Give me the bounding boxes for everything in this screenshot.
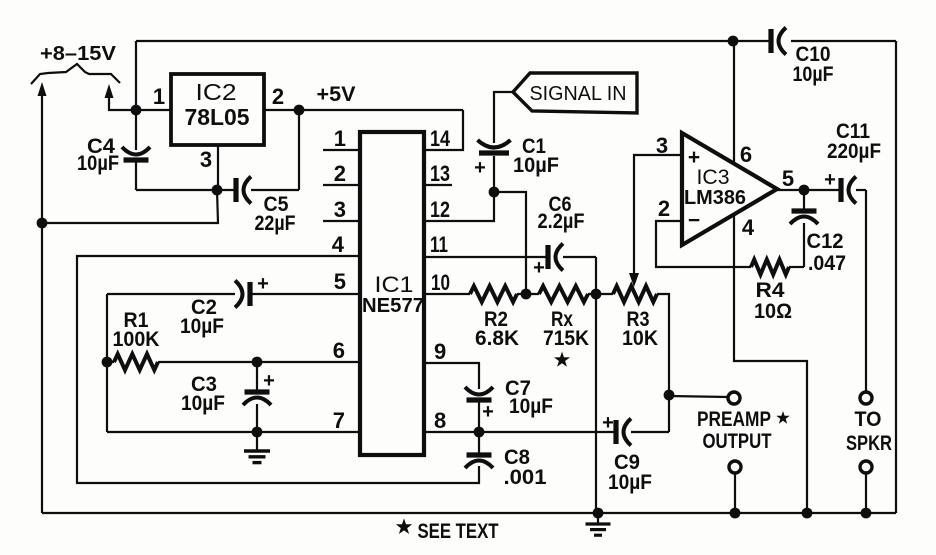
- svg-text:SIGNAL IN: SIGNAL IN: [530, 82, 627, 105]
- wire preamp tap: [669, 396, 728, 397]
- node bus ground junction: [593, 508, 604, 519]
- svg-text:TO: TO: [855, 408, 882, 431]
- label R4 value: [754, 300, 792, 323]
- svg-text:6: 6: [333, 338, 345, 363]
- svg-text:78L05: 78L05: [185, 104, 250, 130]
- label OUTPUT: [703, 430, 772, 453]
- node top rail junction: [728, 36, 739, 47]
- node output junction: [799, 185, 810, 196]
- pin 11 label IC1: [430, 232, 448, 257]
- wire IC1 pin8: [424, 431, 616, 433]
- node R2-Rx junction: [517, 289, 539, 300]
- plus sign C11: [824, 169, 836, 191]
- pin 6 label IC1: [333, 338, 345, 363]
- label C11 value: [827, 140, 881, 163]
- svg-text:SPKR: SPKR: [846, 432, 892, 455]
- wire IC2 pin1: [136, 109, 171, 111]
- capacitor C5: [217, 177, 299, 204]
- pin 8 label IC1: [434, 408, 446, 433]
- svg-text:13: 13: [430, 161, 450, 186]
- label IC1: [375, 272, 414, 297]
- svg-text:10µF: 10µF: [509, 395, 553, 418]
- svg-text:+: +: [482, 401, 494, 423]
- pin 10 label IC1: [431, 270, 450, 295]
- plus sign C2: [257, 273, 269, 295]
- pin 12 label IC1: [430, 197, 450, 222]
- label C4 value: [77, 152, 119, 175]
- svg-text:10K: 10K: [622, 327, 658, 350]
- wire IC1 pin13 stub: [424, 184, 452, 186]
- wire R3 right drop: [657, 294, 669, 432]
- node bus pin4 junction: [802, 508, 813, 519]
- wire left edge with up arrow: [38, 82, 47, 513]
- svg-text:+: +: [533, 257, 545, 279]
- wire IC2 pin3 down: [217, 145, 219, 190]
- svg-text:+: +: [688, 146, 700, 169]
- label C12 value: [808, 252, 846, 275]
- svg-text:OUTPUT: OUTPUT: [703, 430, 772, 453]
- capacitor C1: [478, 140, 511, 192]
- svg-text:NE577: NE577: [362, 295, 424, 317]
- ground below C3: [244, 432, 270, 463]
- pin 3 label IC3: [656, 133, 668, 158]
- capacitor C9: [616, 419, 669, 446]
- terminal preamp output bottom: [729, 461, 741, 473]
- svg-text:3: 3: [200, 147, 212, 172]
- svg-text:100K: 100K: [113, 328, 160, 351]
- plus sign C7: [482, 401, 494, 423]
- wire IC1 pin2 stub: [323, 184, 360, 186]
- wire IC1 pin14 to +5V: [424, 110, 463, 150]
- terminal to-spkr top: [860, 392, 872, 404]
- label C6 value: [538, 210, 585, 233]
- label PREAMP: [697, 408, 790, 431]
- svg-text:5: 5: [334, 269, 346, 294]
- capacitor C4: [122, 110, 150, 190]
- label Rx value: [543, 327, 589, 350]
- label C12: [807, 230, 844, 253]
- label C3 value: [181, 392, 225, 415]
- pin 2 label IC3: [658, 196, 670, 221]
- svg-text:9: 9: [434, 339, 446, 364]
- capacitor C12: [790, 190, 818, 267]
- pin 1 label IC1: [334, 126, 346, 151]
- label C4: [87, 135, 115, 158]
- ground below bus: [586, 513, 611, 535]
- label C7: [505, 377, 531, 400]
- capacitor C3: [243, 362, 271, 433]
- label C10: [796, 43, 831, 66]
- label C8 value: [504, 466, 547, 489]
- wire IC3 output: [777, 189, 841, 191]
- node pin8 junction: [474, 427, 485, 438]
- node junction at IC2 pin1: [131, 105, 142, 116]
- label C3: [191, 373, 217, 396]
- label SIGNAL IN: [530, 82, 627, 105]
- IC1 NE577 box: [360, 132, 424, 455]
- svg-text:IC2: IC2: [196, 79, 237, 105]
- plus sign C1: [474, 157, 486, 179]
- pin 5 label IC3: [782, 166, 794, 191]
- wire IC1 pin5 left segment: [250, 293, 360, 295]
- pin 3 label IC1: [334, 197, 346, 222]
- star see-text note: [396, 518, 412, 534]
- svg-text:8: 8: [434, 408, 446, 433]
- svg-text:10µF: 10µF: [513, 154, 559, 177]
- pin 3 label IC2: [200, 147, 212, 172]
- label C5: [264, 193, 289, 216]
- svg-text:+: +: [474, 157, 486, 179]
- capacitor C2: [107, 281, 250, 308]
- pin 9 label IC1: [434, 339, 446, 364]
- svg-text:1: 1: [334, 126, 346, 151]
- wire C2 left down to pin7 line: [106, 294, 108, 432]
- svg-text:10Ω: 10Ω: [754, 300, 792, 323]
- wire IC3 pin6 from top rail: [733, 41, 735, 164]
- label NE577: [362, 295, 424, 317]
- resistor R4: [751, 260, 804, 275]
- wire IC1 pin3 stub: [323, 220, 360, 222]
- wire IC1 pin12: [424, 192, 494, 221]
- resistor Rx: [539, 286, 588, 302]
- svg-text:1: 1: [153, 84, 165, 109]
- plus sign IC3 noninv: [688, 146, 700, 169]
- pin 13 label IC1: [430, 161, 450, 186]
- pin 1 label IC2: [153, 84, 165, 109]
- op-amp IC3 triangle: [682, 133, 777, 245]
- svg-text:.047: .047: [808, 252, 846, 275]
- svg-text:220µF: 220µF: [827, 140, 881, 163]
- label C7 value: [509, 395, 553, 418]
- label LM386: [684, 187, 746, 209]
- label C1: [522, 135, 546, 158]
- svg-text:12: 12: [430, 197, 450, 222]
- svg-text:2.2µF: 2.2µF: [538, 210, 585, 233]
- wire IC3 pin2 feedback: [656, 221, 751, 267]
- svg-text:6: 6: [740, 142, 752, 167]
- label +5V: [317, 83, 356, 106]
- svg-text:+5V: +5V: [317, 83, 356, 106]
- wire IC1 pin1 stub: [323, 149, 360, 151]
- label C2 value: [180, 315, 224, 338]
- wire top +V rail: [136, 40, 896, 42]
- svg-text:6.8K: 6.8K: [475, 327, 519, 350]
- label R2 value: [475, 327, 519, 350]
- label IC3: [697, 166, 730, 189]
- label R3: [627, 308, 650, 331]
- svg-text:2: 2: [272, 84, 284, 109]
- label C10 value: [793, 63, 834, 86]
- wire C11 to speaker terminal: [865, 190, 867, 392]
- svg-text:14: 14: [430, 126, 451, 151]
- capacitor C8: [465, 432, 493, 468]
- svg-text:IC1: IC1: [375, 272, 414, 297]
- svg-text:2: 2: [658, 196, 670, 221]
- wire C6 right down ground drop: [595, 257, 597, 513]
- svg-text:3: 3: [656, 133, 668, 158]
- node IC2 pin3 junction: [212, 185, 223, 196]
- node preamp junction: [664, 390, 675, 401]
- label R1: [124, 309, 149, 332]
- pin 4 label IC3: [742, 215, 755, 240]
- wire preamp bottom to bus: [734, 473, 736, 513]
- svg-text:C12: C12: [807, 230, 844, 253]
- label R2: [484, 308, 508, 331]
- minus sign IC3 inv: [688, 209, 700, 232]
- potentiometer R3: [613, 286, 657, 302]
- svg-text:R4: R4: [756, 279, 785, 302]
- svg-text:3: 3: [334, 197, 346, 222]
- svg-text:SEE TEXT: SEE TEXT: [418, 520, 499, 543]
- star Rx see-text: [554, 352, 570, 367]
- svg-text:22µF: 22µF: [255, 212, 296, 235]
- pin 5 label IC1: [334, 269, 346, 294]
- plus sign C9: [602, 412, 614, 434]
- svg-text:+: +: [257, 273, 269, 295]
- svg-text:PREAMP: PREAMP: [697, 408, 771, 431]
- resistor R2: [470, 286, 517, 302]
- label R3 value: [622, 327, 658, 350]
- wire IC1 pin10 to R2: [424, 293, 470, 295]
- pin 2 label IC2: [272, 84, 284, 109]
- wire right edge: [895, 41, 897, 513]
- svg-text:.001: .001: [504, 466, 547, 489]
- svg-text:4: 4: [332, 232, 345, 257]
- node C3 bottom junction: [252, 427, 263, 438]
- wire IC1 pin4 loop: [77, 256, 479, 483]
- power symbol squiggle +8-15V: [31, 64, 120, 84]
- label IC2: [196, 79, 237, 105]
- wire C1 node to R2-Rx junction: [494, 192, 526, 294]
- svg-text:10µF: 10µF: [181, 392, 225, 415]
- node C1 bottom junction: [489, 187, 500, 198]
- pin 6 label IC3: [740, 142, 752, 167]
- wire C5 right up to +5V: [298, 110, 300, 190]
- svg-text:10µF: 10µF: [793, 63, 834, 86]
- svg-text:7: 7: [333, 408, 345, 433]
- capacitor C7: [465, 387, 493, 432]
- plus sign C3: [263, 370, 275, 392]
- node R1 left junction: [102, 357, 113, 368]
- label C9: [614, 451, 640, 474]
- svg-text:11: 11: [430, 232, 448, 257]
- label SEE TEXT: [418, 520, 499, 543]
- capacitor C11: [841, 177, 866, 204]
- label C9 value: [608, 471, 652, 494]
- wire IC2 pin2 to +5V node: [264, 109, 463, 111]
- svg-text:10µF: 10µF: [180, 315, 224, 338]
- svg-text:+: +: [602, 412, 614, 434]
- capacitor C6: [548, 244, 596, 271]
- label R4: [756, 279, 785, 302]
- wire IC3 pin4 down: [734, 214, 807, 513]
- terminal to-spkr bottom: [860, 461, 872, 473]
- capacitor C10: [771, 28, 786, 55]
- svg-text:+: +: [263, 370, 275, 392]
- terminal preamp output top: [728, 392, 740, 404]
- label C2: [191, 296, 217, 319]
- IC2 78L05 box: [171, 74, 264, 145]
- wire IC1 pin9 to C7: [424, 363, 479, 389]
- wire IC1 pin6: [158, 361, 360, 363]
- label +8-15V: [40, 42, 116, 65]
- svg-text:IC3: IC3: [697, 166, 730, 189]
- wire IC1 pin7: [107, 431, 360, 433]
- svg-text:10: 10: [431, 270, 450, 295]
- wire IC1 pin11 to C6: [424, 256, 547, 258]
- resistor R1: [107, 354, 158, 370]
- svg-text:715K: 715K: [543, 327, 589, 350]
- label 78L05: [185, 104, 250, 130]
- node left rail junction: [37, 218, 48, 229]
- svg-text:−: −: [688, 209, 700, 232]
- label Rx: [551, 308, 573, 331]
- wire IC3 pin3 to R3 wiper: [629, 155, 682, 287]
- svg-text:2: 2: [334, 161, 346, 186]
- pin 7 label IC1: [333, 408, 345, 433]
- node bus spkr junction: [861, 508, 872, 519]
- label C11: [836, 120, 870, 143]
- label C8: [504, 446, 530, 469]
- plus sign C6: [533, 257, 545, 279]
- label C6: [549, 193, 572, 216]
- svg-text:5: 5: [782, 166, 794, 191]
- wire ground tap to left rail: [42, 190, 218, 223]
- svg-text:+: +: [824, 169, 836, 191]
- wire banner to C1: [494, 92, 513, 143]
- wire spkr bottom to bus: [865, 473, 867, 513]
- pin 2 label IC1: [334, 161, 346, 186]
- svg-text:10µF: 10µF: [77, 152, 119, 175]
- pin 4 label IC1: [332, 232, 345, 257]
- label C5 value: [255, 212, 296, 235]
- node Rx-R3 junction: [588, 289, 613, 300]
- pin 14 label IC1: [430, 126, 451, 151]
- wire bottom ground bus: [42, 512, 896, 514]
- signal in banner: [513, 73, 637, 113]
- label C1 value: [513, 154, 559, 177]
- svg-text:+8–15V: +8–15V: [40, 42, 116, 65]
- node bus preamp junction: [730, 508, 741, 519]
- node +5V junction: [294, 105, 305, 116]
- svg-text:10µF: 10µF: [608, 471, 652, 494]
- label R1 value: [113, 328, 160, 351]
- wire +V entry arrow: [105, 84, 137, 110]
- svg-text:4: 4: [742, 215, 755, 240]
- label SPKR: [846, 432, 892, 455]
- label TO: [855, 408, 882, 431]
- node C3 top junction: [252, 357, 263, 368]
- wire C4 bottom to pin3 node: [136, 189, 217, 191]
- wire vertical from top rail to pin1 node: [135, 41, 137, 110]
- svg-text:LM386: LM386: [684, 187, 746, 209]
